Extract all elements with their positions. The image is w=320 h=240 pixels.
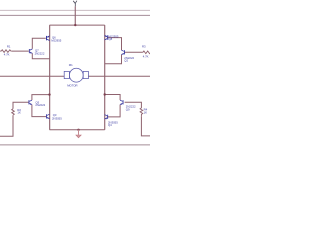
wire V+ stem xyxy=(74,6,76,25)
resistor R4 xyxy=(140,108,143,116)
wire R2 bottom xyxy=(0,116,13,137)
svg-text:4.7K: 4.7K xyxy=(4,52,10,56)
node right mid junction xyxy=(104,93,106,95)
svg-text:2N2222: 2N2222 xyxy=(35,103,45,107)
wire bottom rail xyxy=(0,144,150,146)
svg-text:Q2: Q2 xyxy=(124,59,128,63)
wire R1 to Q7 base xyxy=(12,50,29,52)
transistor Q9 xyxy=(120,100,124,105)
resistor R1 xyxy=(0,50,12,53)
transistor Q5 xyxy=(29,100,33,105)
wire top rail 2 xyxy=(0,14,150,16)
svg-text:M1: M1 xyxy=(69,63,73,67)
wire left mid branch xyxy=(32,95,50,100)
wire top rail 1 xyxy=(0,9,150,11)
wire left vertical xyxy=(49,25,51,130)
svg-text:1K: 1K xyxy=(144,110,148,114)
wire right mid branch xyxy=(105,95,120,101)
svg-text:R3: R3 xyxy=(142,44,146,48)
wire R4 bottom xyxy=(141,116,150,136)
transistor Q2 xyxy=(121,50,125,55)
node ground junction xyxy=(77,129,79,131)
wire Q2 emitter xyxy=(105,55,122,64)
svg-text:2N3055: 2N3055 xyxy=(52,116,62,120)
transistor Q7 xyxy=(29,49,32,54)
wire R2 top xyxy=(13,102,29,109)
motor M1 xyxy=(64,68,88,82)
svg-text:MJ2955: MJ2955 xyxy=(51,38,61,42)
node V+ junction xyxy=(74,24,76,26)
wire Q6 base feed xyxy=(32,38,46,49)
resistor R2 xyxy=(12,109,15,116)
power symbol V+ xyxy=(73,1,77,7)
transistor Q4 xyxy=(105,115,109,120)
resistor R3 xyxy=(143,51,150,54)
svg-text:Q9: Q9 xyxy=(126,107,130,111)
wire R4 top xyxy=(125,102,142,108)
svg-text:MOTOR: MOTOR xyxy=(67,83,77,87)
wire Q9 emitter xyxy=(107,105,120,117)
wire motor line right xyxy=(88,75,150,77)
svg-text:Q8: Q8 xyxy=(109,37,113,41)
wire Q5 emitter xyxy=(32,105,46,117)
wire top branch xyxy=(50,24,105,26)
wire bottom mid rail xyxy=(50,129,105,131)
transistor Q6 xyxy=(46,36,50,41)
wire Q2 base xyxy=(124,51,142,53)
svg-text:R1: R1 xyxy=(7,45,11,49)
wire motor line left xyxy=(0,75,64,77)
wire right vertical xyxy=(104,25,106,130)
wire Q8 base feed xyxy=(107,38,122,50)
transistor Q3 xyxy=(46,114,50,119)
wire Q7 emitter xyxy=(32,53,49,58)
svg-text:1K: 1K xyxy=(17,111,21,115)
transistor Q8 xyxy=(105,35,109,40)
node left mid junction xyxy=(48,93,50,95)
svg-text:Q4: Q4 xyxy=(108,123,112,127)
ground xyxy=(78,130,80,135)
svg-text:2N2222: 2N2222 xyxy=(35,51,45,55)
svg-text:4.7K: 4.7K xyxy=(143,55,149,59)
